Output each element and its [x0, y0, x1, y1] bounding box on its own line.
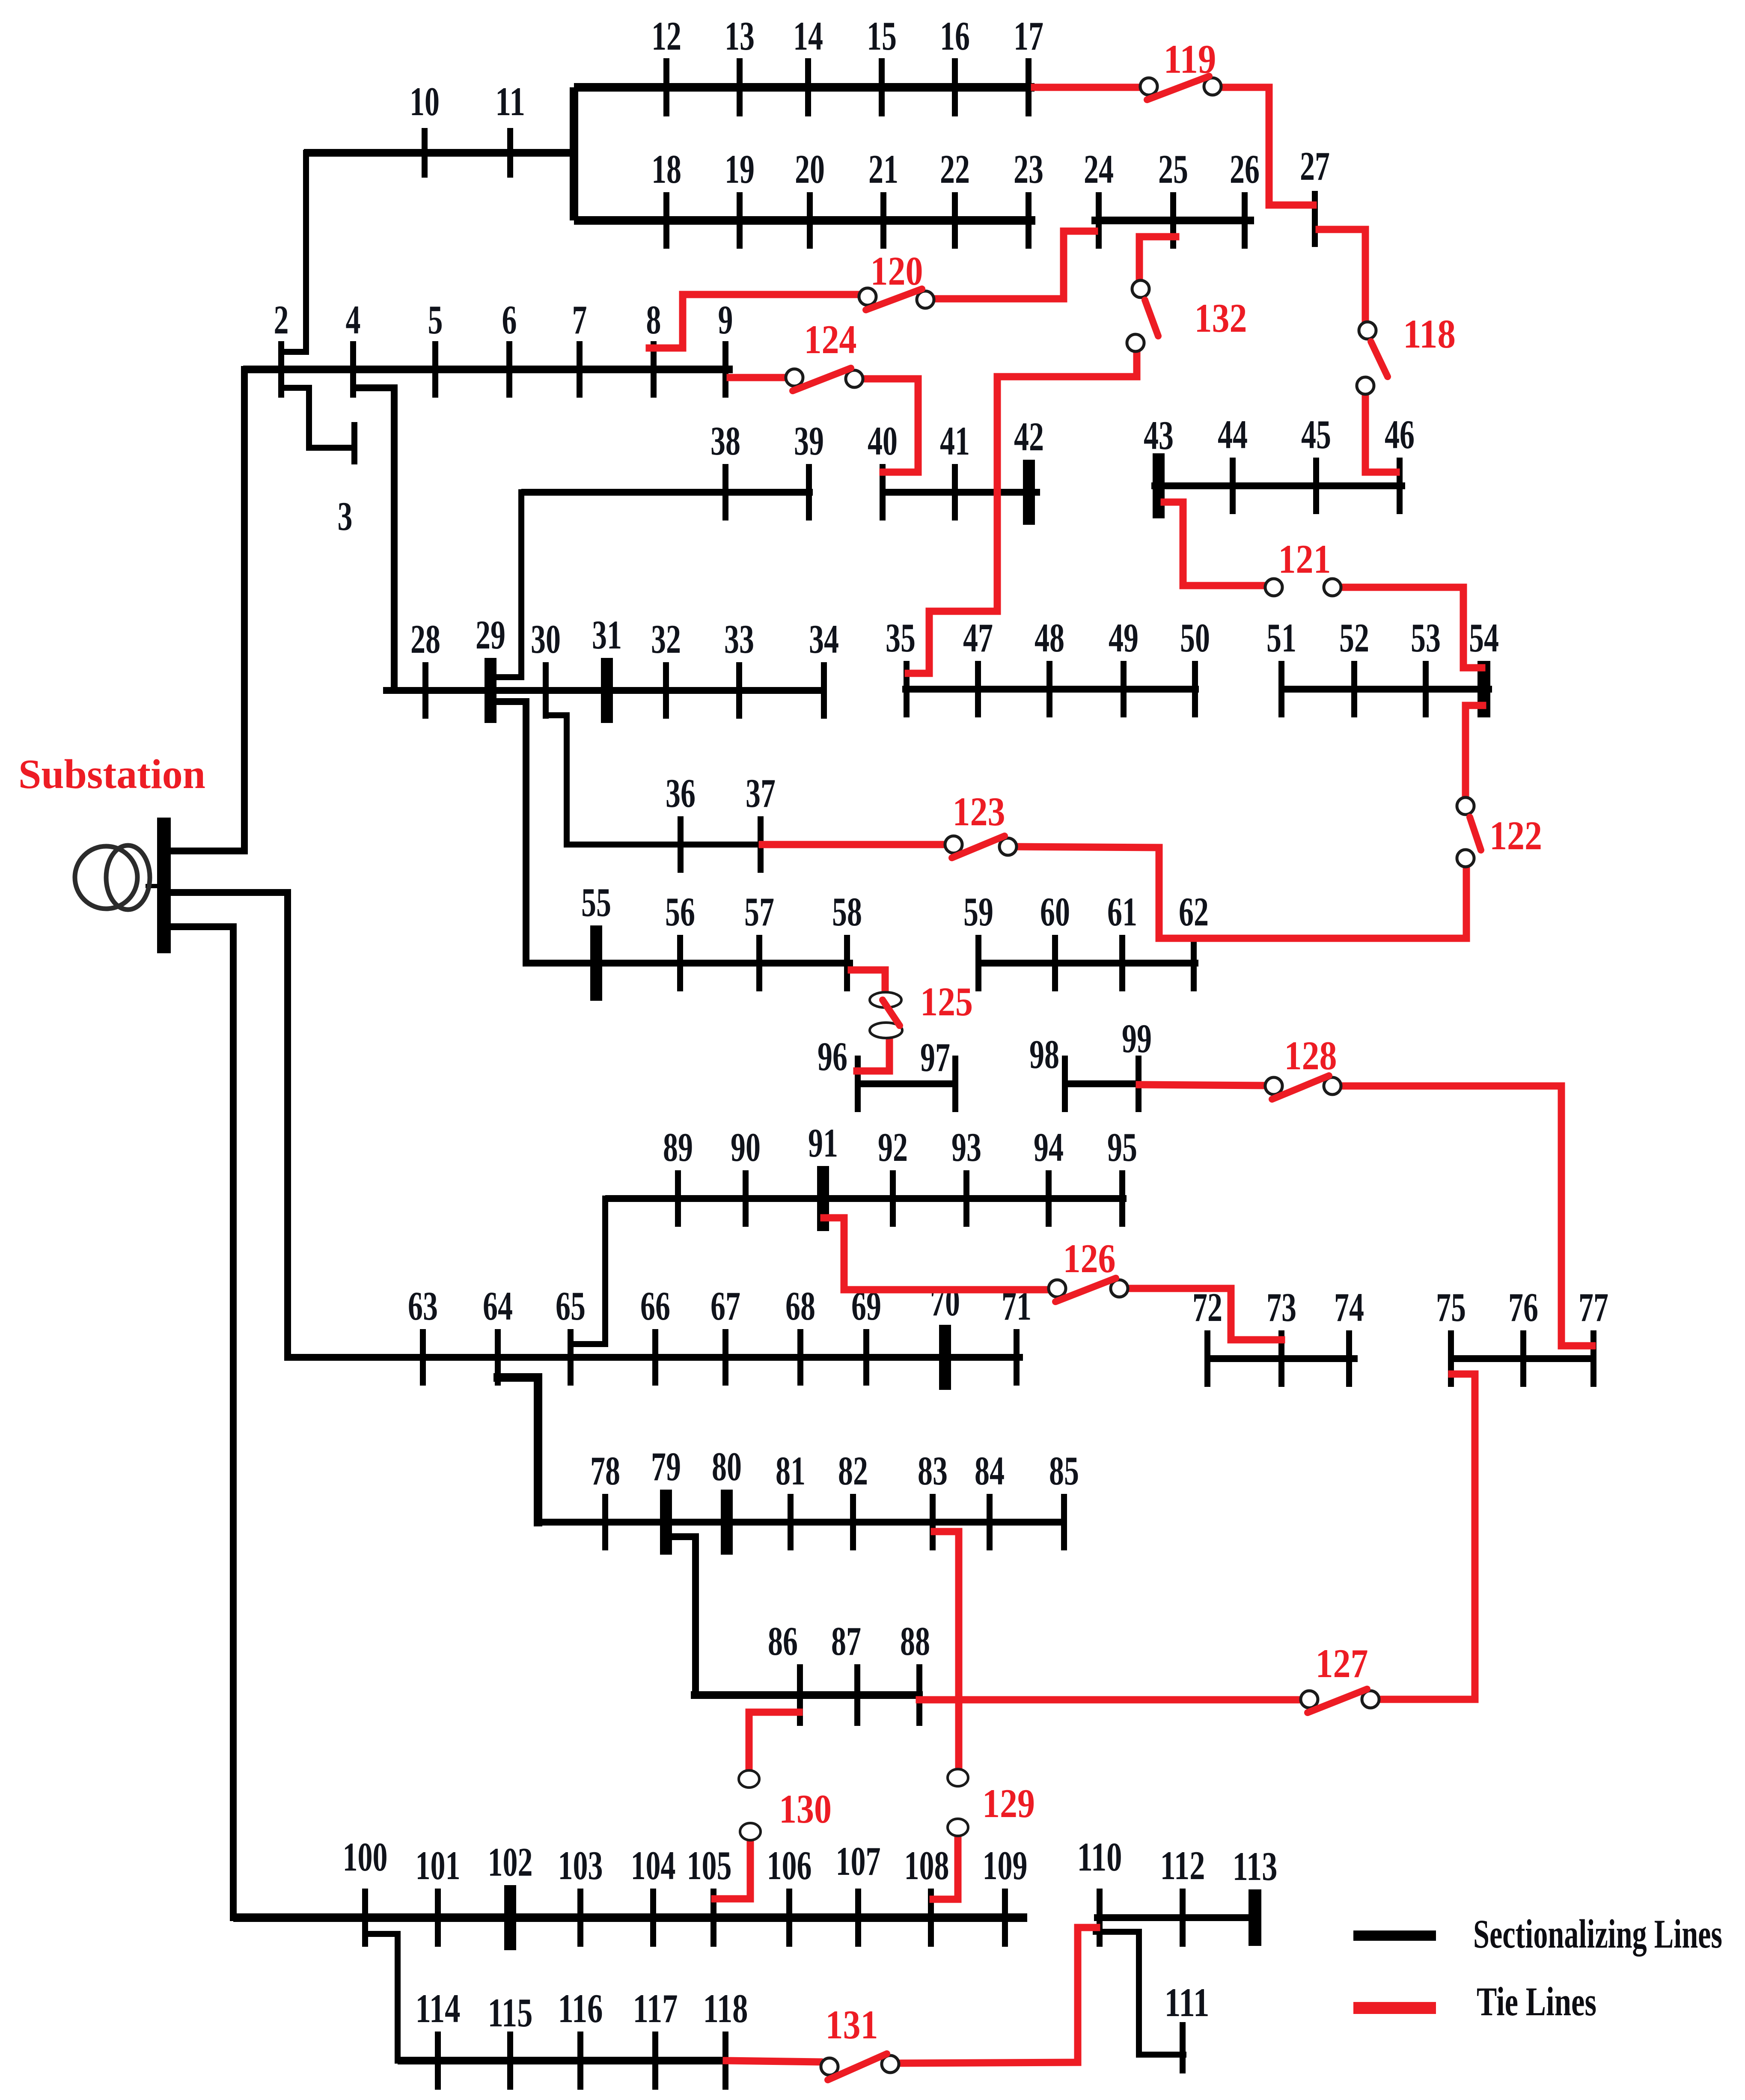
svg-text:Tie Lines: Tie Lines [1477, 1979, 1596, 2024]
svg-text:68: 68 [785, 1283, 815, 1329]
svg-text:112: 112 [1160, 1843, 1205, 1888]
svg-text:53: 53 [1411, 615, 1441, 660]
svg-text:107: 107 [836, 1838, 881, 1884]
svg-text:63: 63 [408, 1283, 438, 1329]
svg-text:51: 51 [1266, 615, 1296, 660]
svg-text:84: 84 [975, 1448, 1005, 1493]
svg-text:82: 82 [838, 1448, 868, 1493]
svg-text:33: 33 [724, 616, 754, 662]
svg-text:67: 67 [710, 1283, 740, 1329]
svg-text:109: 109 [983, 1843, 1028, 1888]
svg-text:119: 119 [1164, 36, 1216, 82]
svg-text:34: 34 [809, 616, 839, 662]
svg-text:88: 88 [900, 1618, 930, 1664]
svg-text:59: 59 [963, 889, 993, 934]
svg-text:81: 81 [776, 1448, 806, 1493]
svg-text:97: 97 [920, 1035, 950, 1080]
svg-text:123: 123 [953, 789, 1005, 834]
svg-text:129: 129 [982, 1781, 1035, 1826]
svg-text:61: 61 [1107, 889, 1137, 934]
svg-text:45: 45 [1301, 412, 1331, 457]
svg-text:110: 110 [1077, 1834, 1122, 1880]
svg-text:106: 106 [767, 1843, 812, 1888]
svg-text:108: 108 [904, 1843, 949, 1888]
svg-text:11: 11 [495, 79, 525, 124]
svg-text:128: 128 [1284, 1033, 1337, 1078]
svg-text:41: 41 [940, 418, 970, 464]
svg-text:62: 62 [1179, 889, 1209, 934]
svg-text:49: 49 [1109, 615, 1139, 660]
svg-text:17: 17 [1014, 13, 1043, 59]
svg-text:124: 124 [804, 317, 857, 362]
svg-text:80: 80 [712, 1444, 742, 1489]
svg-text:113: 113 [1233, 1844, 1278, 1889]
svg-text:94: 94 [1034, 1124, 1064, 1170]
svg-text:118: 118 [1403, 311, 1456, 357]
svg-text:66: 66 [640, 1283, 670, 1329]
svg-text:102: 102 [488, 1839, 533, 1885]
svg-text:39: 39 [794, 418, 824, 464]
svg-text:36: 36 [666, 770, 696, 816]
svg-text:78: 78 [590, 1448, 620, 1493]
svg-text:131: 131 [826, 2002, 878, 2047]
svg-text:38: 38 [710, 418, 740, 464]
svg-text:73: 73 [1266, 1285, 1296, 1330]
svg-text:3: 3 [338, 494, 353, 539]
svg-text:7: 7 [572, 297, 587, 342]
svg-text:91: 91 [808, 1120, 838, 1166]
svg-text:8: 8 [646, 297, 661, 342]
svg-text:28: 28 [410, 616, 440, 662]
svg-text:50: 50 [1180, 615, 1210, 660]
svg-text:105: 105 [687, 1843, 732, 1888]
svg-text:30: 30 [531, 616, 561, 662]
svg-text:126: 126 [1063, 1236, 1116, 1281]
svg-text:Substation: Substation [18, 751, 205, 797]
svg-text:54: 54 [1469, 615, 1499, 660]
svg-text:31: 31 [592, 612, 622, 657]
svg-text:98: 98 [1029, 1032, 1059, 1077]
svg-text:99: 99 [1122, 1016, 1152, 1061]
svg-text:27: 27 [1300, 143, 1330, 189]
svg-text:58: 58 [832, 889, 862, 934]
svg-text:18: 18 [651, 146, 681, 192]
svg-text:76: 76 [1508, 1285, 1538, 1330]
svg-text:29: 29 [476, 612, 505, 657]
svg-text:52: 52 [1339, 615, 1369, 660]
svg-text:104: 104 [631, 1843, 676, 1888]
svg-text:21: 21 [868, 146, 898, 192]
svg-text:117: 117 [633, 1986, 678, 2031]
svg-text:25: 25 [1158, 146, 1188, 192]
svg-text:93: 93 [951, 1124, 981, 1170]
svg-text:122: 122 [1489, 813, 1542, 858]
svg-text:85: 85 [1049, 1448, 1079, 1493]
svg-text:13: 13 [725, 13, 755, 59]
svg-text:116: 116 [558, 1986, 603, 2031]
svg-text:Sectionalizing Lines: Sectionalizing Lines [1473, 1911, 1722, 1957]
svg-text:42: 42 [1014, 414, 1044, 459]
svg-text:55: 55 [581, 880, 611, 925]
svg-text:125: 125 [920, 979, 973, 1024]
svg-text:100: 100 [343, 1834, 388, 1880]
svg-text:9: 9 [718, 297, 733, 342]
svg-text:14: 14 [793, 13, 823, 59]
svg-text:132: 132 [1195, 295, 1247, 341]
svg-text:87: 87 [831, 1618, 861, 1664]
svg-text:130: 130 [779, 1786, 832, 1832]
svg-text:48: 48 [1035, 615, 1064, 660]
svg-text:4: 4 [346, 297, 361, 342]
svg-text:56: 56 [665, 889, 695, 934]
svg-text:103: 103 [558, 1843, 603, 1888]
svg-text:95: 95 [1107, 1124, 1137, 1170]
svg-text:44: 44 [1218, 412, 1248, 457]
svg-text:46: 46 [1385, 412, 1415, 457]
svg-text:101: 101 [416, 1843, 461, 1888]
svg-text:19: 19 [725, 146, 755, 192]
svg-text:83: 83 [918, 1448, 948, 1493]
svg-text:121: 121 [1278, 536, 1331, 582]
svg-text:32: 32 [651, 616, 681, 662]
svg-text:23: 23 [1014, 146, 1043, 192]
svg-text:26: 26 [1230, 146, 1260, 192]
svg-text:114: 114 [416, 1986, 461, 2031]
svg-text:2: 2 [274, 297, 289, 342]
svg-text:57: 57 [744, 889, 774, 934]
svg-text:74: 74 [1334, 1285, 1364, 1330]
svg-text:115: 115 [488, 1990, 533, 2035]
svg-text:5: 5 [428, 297, 443, 342]
svg-text:22: 22 [940, 146, 970, 192]
svg-text:12: 12 [651, 13, 681, 59]
svg-text:43: 43 [1144, 413, 1174, 458]
svg-text:40: 40 [868, 418, 898, 464]
svg-text:90: 90 [731, 1124, 761, 1170]
svg-text:24: 24 [1084, 146, 1114, 192]
svg-text:64: 64 [483, 1283, 513, 1329]
svg-text:79: 79 [651, 1444, 681, 1489]
svg-text:89: 89 [663, 1124, 693, 1170]
svg-text:92: 92 [878, 1124, 908, 1170]
svg-text:15: 15 [867, 13, 897, 59]
svg-text:10: 10 [410, 79, 440, 124]
svg-text:37: 37 [746, 770, 776, 816]
svg-text:96: 96 [818, 1034, 847, 1079]
svg-text:60: 60 [1040, 889, 1070, 934]
svg-text:77: 77 [1579, 1285, 1608, 1330]
svg-text:86: 86 [768, 1618, 798, 1664]
svg-text:16: 16 [940, 13, 970, 59]
svg-text:65: 65 [556, 1283, 586, 1329]
svg-text:75: 75 [1436, 1285, 1466, 1330]
svg-text:20: 20 [795, 146, 825, 192]
svg-text:118: 118 [703, 1986, 748, 2031]
svg-text:120: 120 [871, 248, 923, 294]
svg-text:111: 111 [1165, 1980, 1210, 2025]
svg-text:70: 70 [930, 1279, 960, 1324]
svg-text:35: 35 [886, 615, 916, 660]
svg-text:127: 127 [1316, 1641, 1368, 1686]
svg-text:6: 6 [502, 297, 517, 342]
svg-text:47: 47 [963, 615, 993, 660]
